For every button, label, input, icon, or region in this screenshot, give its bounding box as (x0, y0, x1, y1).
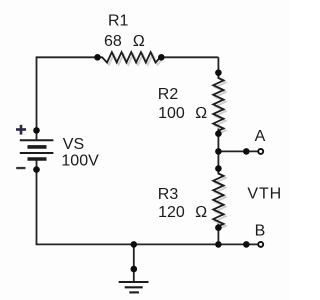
svg-text:100Ω: 100Ω (158, 105, 207, 122)
wire R2 bottom to A junction to R3 top (217, 129, 219, 174)
wire top: left corner to R1, R1 to top-right corner (36, 56, 258, 281)
wire R3 bottom to bottom wire (217, 223, 219, 245)
junction dot ground top (131, 241, 138, 248)
junction dot ground mid (131, 266, 138, 273)
resistor R3 zigzag shadow (215, 176, 225, 229)
wire left vertical: top corner down to battery (36, 56, 38, 140)
junction dot R1 right (158, 54, 165, 61)
wire battery bottom to bottom-left corner (36, 159, 38, 244)
resistor R1 zigzag shadow (104, 54, 162, 64)
junction dot R3 top (215, 165, 222, 172)
resistor R3 zigzag (213, 171, 223, 229)
battery VS plates (20, 140, 54, 159)
resistor R1 zigzag (98, 52, 162, 62)
wire ground branch vertical (133, 244, 135, 281)
junction node A on main wire (215, 148, 222, 155)
junction dot R1 left (94, 54, 101, 61)
resistor R2 zigzag (213, 76, 223, 134)
resistor R2 zigzag shadow (215, 80, 225, 133)
svg-text:68Ω: 68Ω (104, 33, 145, 50)
svg-text:R3: R3 (158, 186, 179, 203)
battery plus sign (16, 125, 26, 135)
svg-text:B: B (255, 222, 266, 239)
dot terminal B lead (243, 241, 250, 248)
junction dot battery bottom (33, 166, 40, 173)
junction dot R3 bottom (215, 224, 222, 231)
dot terminal A lead (243, 148, 250, 155)
terminal A open circle (258, 149, 263, 154)
ground (119, 282, 149, 292)
wire right vertical: top corner to R2 (217, 57, 219, 78)
svg-text:120Ω: 120Ω (158, 204, 207, 221)
junction dot R2 top (215, 69, 222, 76)
battery minus sign (16, 167, 25, 169)
svg-text:R2: R2 (158, 86, 179, 103)
junction node B on bottom wire (215, 241, 222, 248)
svg-text:100V: 100V (61, 153, 99, 170)
junction dot battery top (33, 127, 40, 134)
wire bottom: left corner to B terminal (36, 243, 258, 245)
junction dot R2 bottom (215, 130, 222, 137)
svg-text:VTH: VTH (247, 185, 282, 202)
svg-text:R1: R1 (108, 13, 129, 30)
svg-text:A: A (255, 128, 266, 145)
wire A branch horizontal (218, 150, 257, 152)
terminal B open circle (258, 242, 263, 247)
svg-text:VS: VS (63, 136, 84, 153)
